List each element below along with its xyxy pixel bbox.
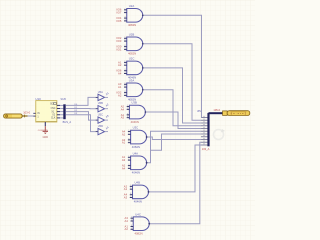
wire bus to buffer U5D input	[66, 115, 96, 132]
svg-text:A4: A4	[125, 219, 129, 223]
svg-text:SC/D: SC/D	[61, 99, 67, 101]
svg-text:I/O1: I/O1	[116, 47, 122, 51]
U4A input pins	[128, 156, 131, 169]
net label BUS_A	[63, 120, 72, 124]
wire branch to JP2 pin 7	[151, 134, 202, 150]
connector J3 (right antenna plug)	[223, 111, 250, 116]
svg-text:A2: A2	[118, 93, 122, 97]
svg-text:OSC: OSC	[51, 108, 56, 110]
svg-text:BUS_A: BUS_A	[63, 120, 72, 124]
U3A part number label 4082N	[128, 98, 136, 102]
U2A input pins	[124, 8, 127, 21]
U2C part number label 4046N	[128, 76, 136, 80]
junction dot U3A output	[142, 89, 144, 91]
U10 right pins 3-7	[57, 105, 60, 118]
U4C input pins	[131, 217, 134, 230]
junction dot U4B output	[148, 191, 150, 193]
U2C designator label	[129, 57, 135, 61]
U2B input pins	[124, 37, 127, 50]
connector JP2 body	[207, 113, 209, 146]
connector J1 (left antenna plug)	[4, 114, 28, 118]
connector JP2 pin stubs	[201, 116, 208, 145]
U2A designator label	[129, 4, 135, 8]
buffer U5C	[96, 113, 105, 124]
and-gate U3A	[127, 83, 143, 97]
U2B input net labels	[116, 36, 122, 51]
U10 internal pin name texts	[37, 102, 56, 119]
svg-text:CLK: CLK	[51, 118, 56, 120]
junction dot U4C output	[148, 223, 150, 225]
net label 103-0 on wire from J1	[23, 111, 30, 115]
and-gate U4A	[131, 156, 147, 170]
svg-text:U5D: U5D	[98, 124, 103, 128]
U2C input pins	[124, 61, 127, 74]
U4B input net labels	[124, 184, 128, 199]
U3C part number label 4082N	[132, 145, 140, 149]
svg-text:A3: A3	[124, 195, 128, 199]
buffer U5B output stub + net label A2	[105, 102, 110, 109]
svg-text:A3: A3	[122, 158, 126, 162]
buffer U5C output stub + net label A3	[105, 113, 110, 120]
IC U10 (yellow component body)	[36, 101, 57, 122]
svg-text:U3A: U3A	[129, 78, 135, 82]
buffer U5A	[96, 90, 105, 101]
svg-text:U3B: U3B	[131, 101, 137, 105]
svg-text:8=·=•=3: 8=·=•=3	[231, 112, 247, 116]
U4C part number label 4082N	[134, 232, 142, 236]
svg-text:U5A: U5A	[98, 90, 103, 94]
U4B input pins	[130, 185, 133, 198]
junction dot U2A output	[142, 15, 144, 17]
net label COMMON	[38, 130, 49, 132]
svg-text:A1: A1	[124, 187, 128, 191]
and-gate U4C	[133, 217, 149, 231]
thick wire JP2 to J3	[209, 112, 223, 114]
svg-text:IN: IN	[37, 113, 40, 115]
designator U10	[35, 97, 41, 101]
U10 bottom ground pin	[44, 122, 46, 126]
U3C input net labels	[122, 129, 126, 144]
svg-text:SD: SD	[50, 103, 54, 106]
svg-text:I/O3: I/O3	[116, 39, 122, 43]
svg-text:A3: A3	[121, 116, 125, 120]
wire U3B output to JP2	[145, 112, 201, 128]
svg-text:U4A: U4A	[133, 151, 139, 155]
U4A designator label	[133, 151, 139, 155]
wire U3C output to JP2 pin 9	[147, 137, 202, 139]
svg-text:I/O5: I/O5	[116, 19, 122, 23]
U4A part number label 4046N	[132, 171, 140, 175]
svg-text:U10: U10	[35, 97, 41, 101]
svg-text:U4B: U4B	[135, 181, 141, 185]
svg-text:U2C: U2C	[129, 57, 135, 61]
U4C input net labels	[125, 216, 129, 231]
wires U10 pins to bus	[60, 105, 64, 118]
bus BUS_A (thick vertical)	[63, 104, 65, 119]
U3C designator label	[133, 126, 139, 130]
svg-text:U5B: U5B	[98, 101, 103, 105]
svg-text:A2: A2	[122, 132, 126, 136]
svg-text:4046N: 4046N	[134, 200, 142, 204]
U3A input net labels	[116, 82, 122, 97]
U4B part number label 4046N	[134, 200, 142, 204]
label 103_A below JP2	[202, 147, 210, 151]
svg-text:U4C: U4C	[135, 212, 141, 216]
svg-text:GND: GND	[43, 136, 49, 139]
and-gate U3C	[131, 130, 147, 144]
junction dot U3C output	[146, 136, 148, 138]
buffer U5D output stub + net label A4	[105, 125, 110, 132]
U2A input net labels	[116, 8, 122, 23]
and-gate U2B	[127, 37, 143, 51]
U3C input pins	[128, 130, 131, 143]
svg-text:4082N: 4082N	[132, 145, 140, 149]
svg-text:4082N: 4082N	[128, 23, 136, 27]
U3B part number label 4046N	[131, 120, 139, 124]
wire U3A output to JP2	[143, 90, 201, 126]
buffer U5B	[96, 101, 105, 112]
U3B input pins	[127, 105, 130, 118]
and-gate U2A	[127, 9, 143, 23]
svg-text:U3C: U3C	[133, 126, 139, 130]
svg-text:4046N: 4046N	[131, 120, 139, 124]
net labels D0-D3 on bus wires	[75, 104, 79, 115]
wire bus to buffer U5C input	[66, 112, 96, 121]
wire U2B output to JP2	[143, 44, 201, 120]
U3A input pins	[124, 83, 127, 96]
svg-text:A1: A1	[118, 85, 122, 89]
svg-text:I/O7: I/O7	[116, 11, 122, 15]
junction dot U2C output	[142, 67, 144, 69]
wire U2A output to JP2	[143, 15, 202, 117]
U3B input net labels	[121, 104, 125, 119]
svg-text:A2: A2	[125, 227, 129, 231]
svg-text:4046N: 4046N	[132, 171, 140, 175]
junction dot U3B output	[145, 111, 147, 113]
U4B designator label	[135, 181, 141, 185]
svg-text:A1: A1	[122, 141, 126, 145]
U2B designator label	[129, 32, 135, 36]
U3B designator label	[131, 101, 137, 105]
svg-text:103-0: 103-0	[23, 111, 30, 115]
U4C designator label	[135, 212, 141, 216]
junction dot U4A output	[146, 162, 148, 164]
svg-text:A4: A4	[121, 107, 125, 111]
U4A input net labels	[122, 155, 126, 170]
U10 left pins 1,2	[33, 113, 35, 116]
svg-text:U2A: U2A	[129, 4, 135, 8]
net label SCL above bus	[61, 99, 67, 101]
and-gate U2C	[127, 61, 143, 75]
svg-text:4082N: 4082N	[128, 52, 136, 56]
wire bus to buffer U5A input	[66, 97, 96, 105]
wire bus to buffer U5B input	[66, 108, 96, 110]
ground power port GND	[43, 126, 49, 139]
and-gate U4B	[133, 185, 149, 199]
U2A part number label 4082N	[128, 23, 136, 27]
and-gate U3B	[129, 105, 145, 119]
buffer U5D	[96, 124, 105, 135]
wire U2C output to JP2	[143, 68, 201, 123]
svg-text:103_A: 103_A	[202, 147, 210, 151]
faint watermark arrow circle	[214, 129, 226, 140]
wire J1 to U10 pin	[28, 115, 34, 117]
svg-text:A4: A4	[118, 71, 122, 75]
svg-text:U5C: U5C	[98, 113, 103, 117]
svg-text:105-0: 105-0	[213, 108, 220, 112]
wire U4C output to JP2 pin 10	[149, 142, 201, 223]
svg-text:U2B: U2B	[129, 32, 135, 36]
junction dot U2B output	[142, 43, 144, 45]
net label 105-0	[213, 108, 220, 112]
U2B part number label 4082N	[128, 52, 136, 56]
buffer U5A output stub + net label A1	[105, 91, 110, 98]
svg-text:4082N: 4082N	[134, 232, 142, 236]
U2C input net labels	[116, 60, 122, 75]
wire U4A output to JP2 pin 6	[147, 131, 202, 163]
designator JP2	[197, 109, 202, 113]
wire U4B output to JP2 pin 11	[149, 145, 202, 192]
svg-text:A2: A2	[118, 63, 122, 67]
U3A designator label	[129, 78, 135, 82]
svg-text:A4: A4	[122, 166, 126, 170]
